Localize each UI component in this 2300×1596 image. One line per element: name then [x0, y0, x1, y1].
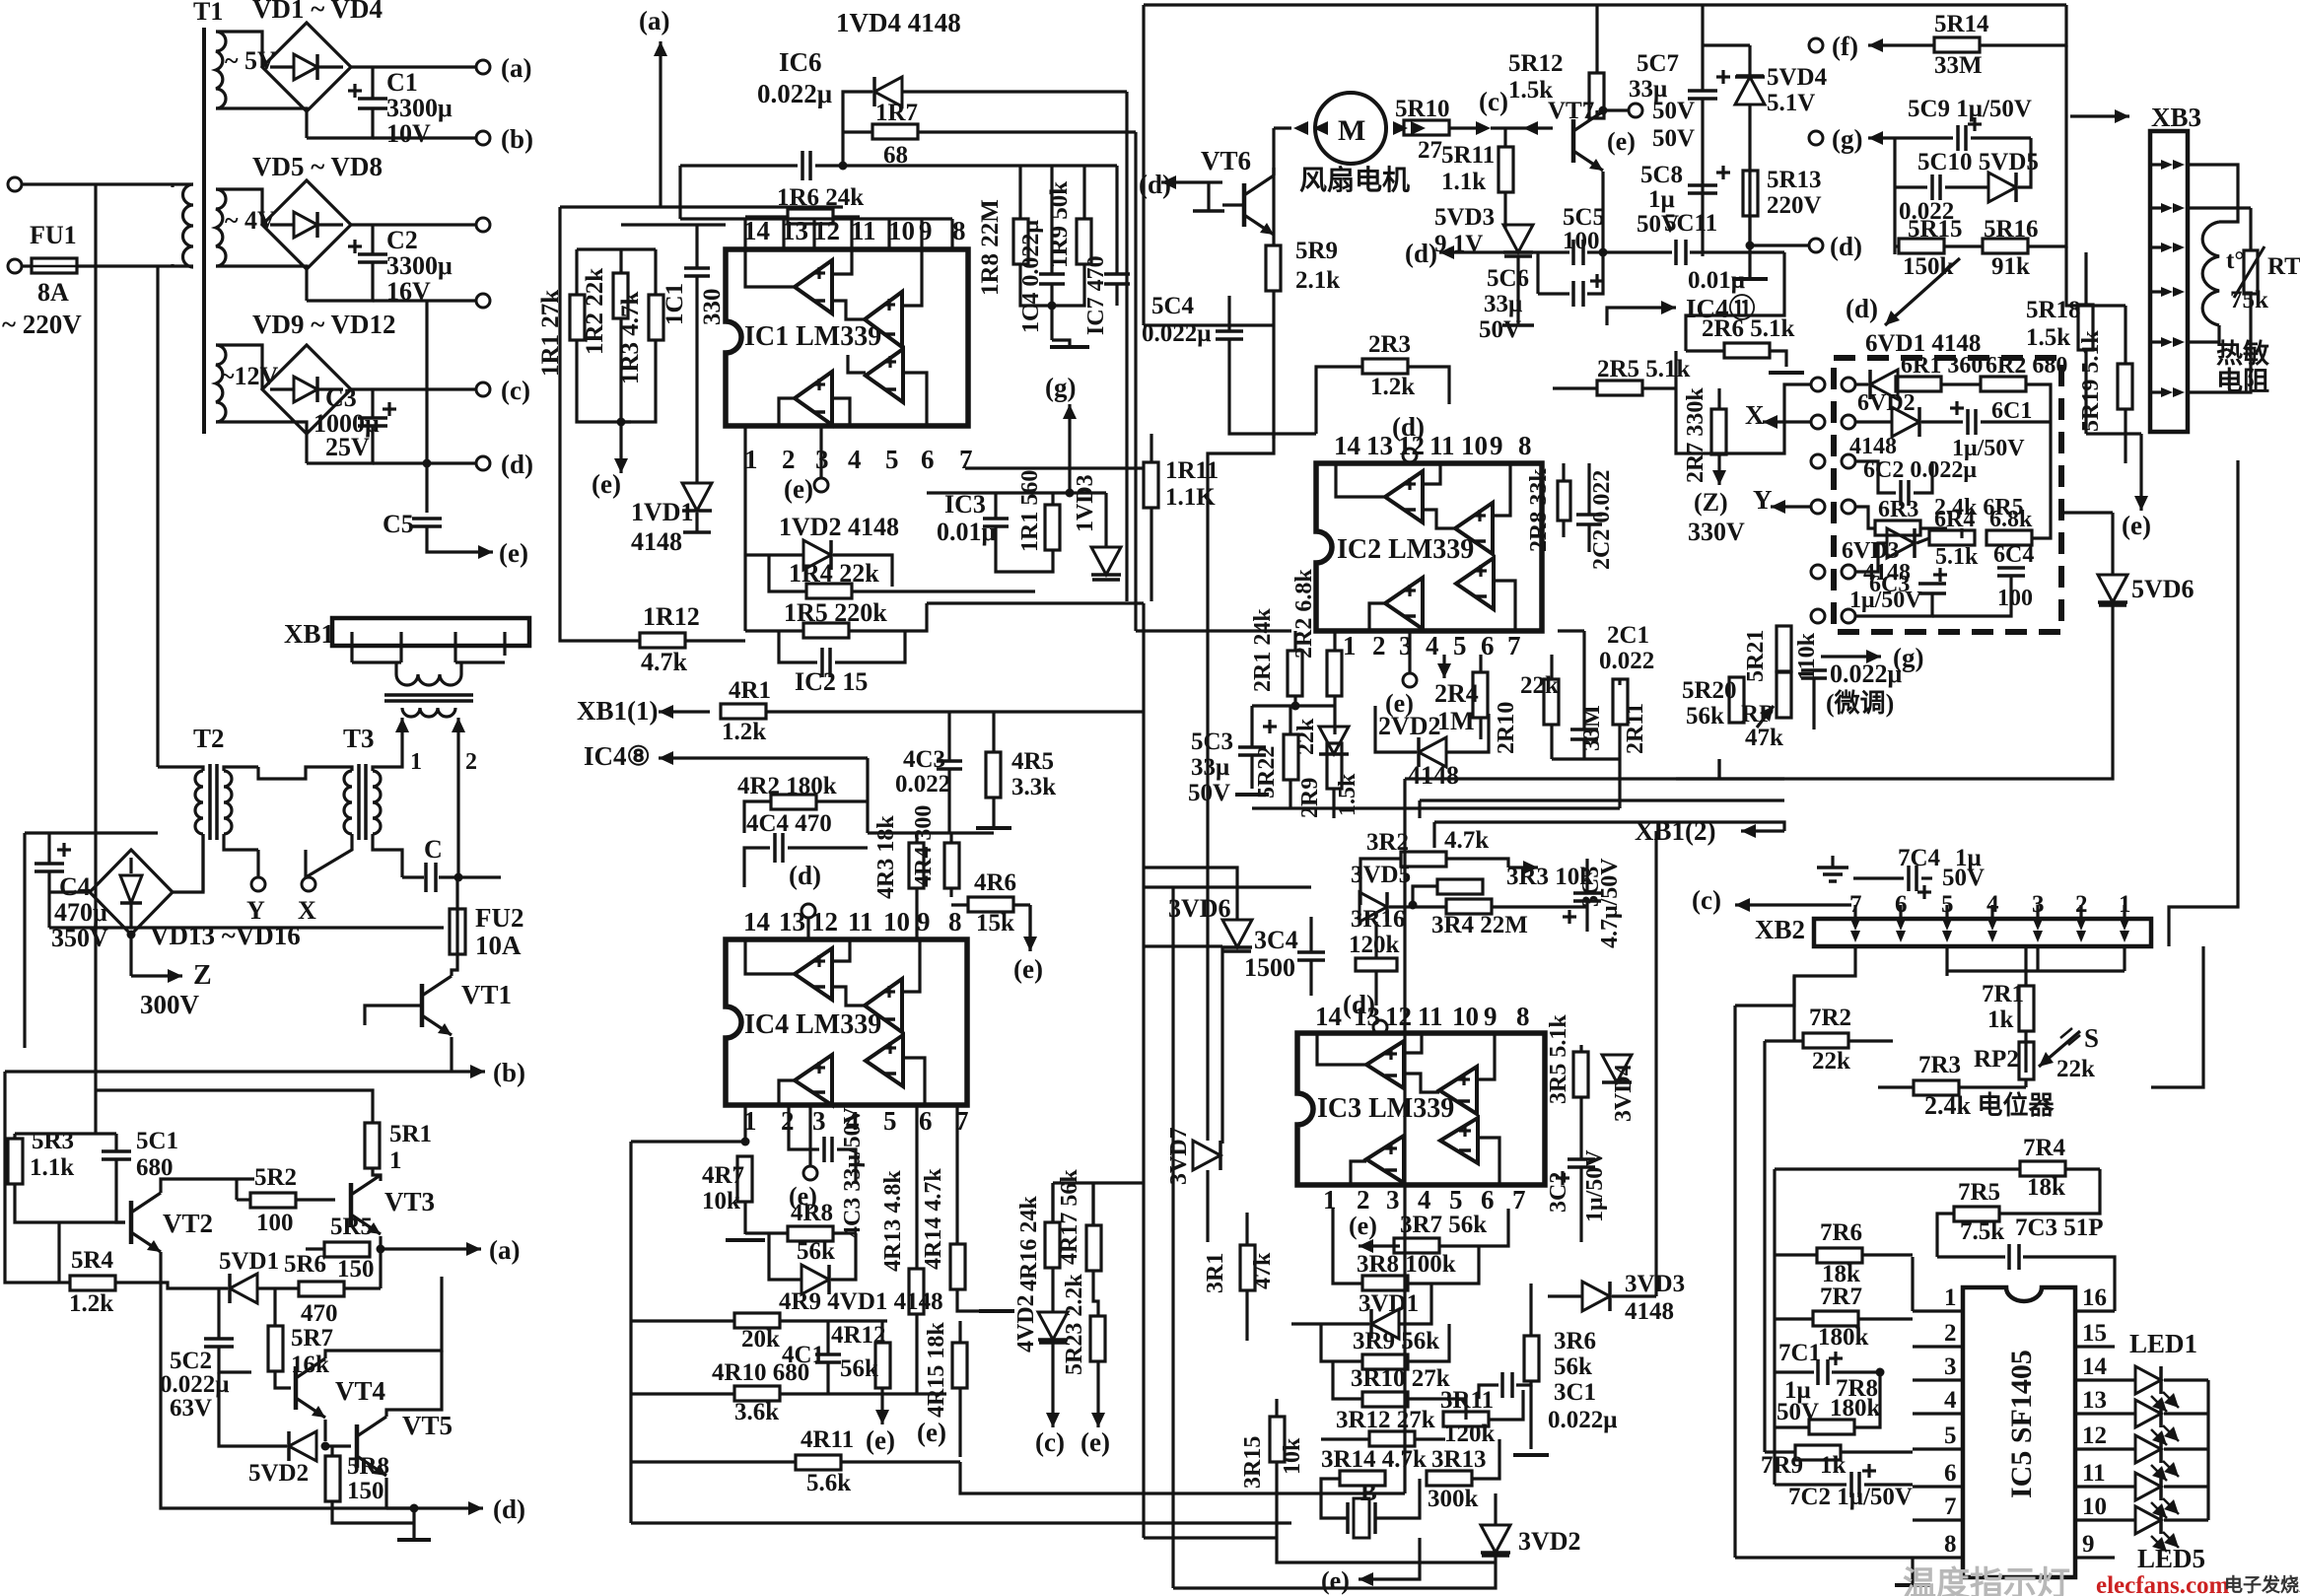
wire 3C3 top [1585, 859, 1588, 893]
transformer T3 primary [344, 771, 352, 834]
svg-text:3R7 56k: 3R7 56k [1400, 1212, 1487, 1238]
svg-text:7: 7 [1512, 1185, 1526, 1214]
svg-text:18k: 18k [2027, 1174, 2065, 1201]
wire LED3 out [2164, 1447, 2208, 1450]
wire 2VD2 left [1375, 706, 1417, 752]
capacitor 1C3 [983, 519, 1009, 526]
svg-text:3R14 4.7k: 3R14 4.7k [1321, 1446, 1427, 1473]
svg-text:11: 11 [848, 907, 873, 937]
wire bridge1 ac top [216, 32, 262, 67]
wire 5c6 drop [1536, 252, 1539, 294]
label 2R7 330k [1683, 387, 1708, 483]
label 6VD2 [1857, 390, 1916, 416]
svg-text:3: 3 [1944, 1353, 1957, 1380]
label 1C7 470 [1083, 255, 1109, 335]
wire 5R11 bot [1503, 192, 1506, 229]
wire to C5 [425, 463, 428, 513]
wire LED4 out [2164, 1485, 2208, 1488]
diode 3VD4 [1602, 1055, 1632, 1082]
wire 4C4 left [744, 848, 770, 887]
svg-text:1R8 22M: 1R8 22M [977, 199, 1004, 296]
label 7C4 [1898, 845, 1941, 871]
svg-text:100: 100 [1997, 586, 2033, 611]
wire IC5 pin 1 stub [1913, 1309, 1963, 1312]
label 3C2 [1546, 1172, 1571, 1213]
label IC1 pin 8 [952, 216, 966, 245]
wire IC4a in [832, 939, 850, 961]
wire 3VD1 left [1291, 1322, 1369, 1325]
label C [424, 835, 443, 864]
label 3R15 val [1280, 1437, 1305, 1475]
connector XB3 pin 2 [2150, 203, 2185, 213]
wire 3C4 bot [1309, 961, 1312, 996]
wire left border bl [3, 1072, 6, 1213]
wire 4C1 top [826, 1321, 829, 1354]
label ~4V [225, 206, 276, 235]
label 5R15 val [1903, 253, 1954, 280]
wire 1c3 bot [996, 527, 1053, 572]
svg-text:T2: T2 [193, 724, 225, 753]
wire a-line vertical [659, 104, 662, 207]
svg-text:4148: 4148 [1849, 434, 1897, 459]
svg-text:6: 6 [1481, 631, 1495, 660]
svg-text:C4: C4 [59, 872, 91, 901]
wire bridge3 ac bot [216, 422, 307, 434]
wire IC5 pin 4 stub [1913, 1412, 1963, 1415]
LED LED1 [2135, 1366, 2179, 1412]
resistor 5R19 [2118, 364, 2132, 409]
wire IC5 pin 5 stub [1913, 1447, 1963, 1450]
transformer T1 primary winding [173, 184, 193, 267]
label 5R13 [1767, 167, 1822, 193]
wire sect7 left v [1733, 1006, 1736, 1558]
label 7R9 [1761, 1452, 1803, 1479]
wire 4R4 top [949, 833, 952, 843]
junction 7r8 [1876, 1368, 1885, 1377]
wire net vt6 to ic2 [1272, 434, 1275, 439]
svg-text:1VD1: 1VD1 [631, 498, 694, 526]
wire rt top [2249, 208, 2252, 250]
label IC4 pin 14 [743, 907, 770, 937]
capacitor 7C1 [1818, 1352, 1843, 1385]
label 6VD3 4148 [1863, 560, 1911, 586]
svg-text:1R11: 1R11 [1165, 457, 1219, 484]
label 5C5 val [1563, 228, 1600, 254]
connector XB3 pin 4 [2150, 287, 2185, 297]
label 3R8 100k [1357, 1251, 1456, 1278]
label 2R4 [1434, 679, 1479, 708]
svg-text:8: 8 [1518, 431, 1532, 460]
terminal b2 [476, 218, 490, 232]
label XB1(2) [1635, 816, 1716, 846]
wire h 985 [1947, 969, 2125, 972]
svg-text:5R4: 5R4 [71, 1247, 114, 1274]
wire AC top to T1 primary [22, 182, 173, 185]
label 3VD2 [1518, 1527, 1581, 1556]
diode 1VD3 [1091, 547, 1121, 580]
resistor 2R2 [1327, 651, 1342, 696]
resistor 4R10 [734, 1386, 780, 1401]
svg-text:7R6: 7R6 [1820, 1219, 1862, 1246]
wire IC2b in [1493, 463, 1510, 516]
svg-text:330: 330 [699, 289, 726, 326]
svg-text:IC2 LM339: IC2 LM339 [1337, 534, 1474, 565]
transformer T1 secondary 5V [216, 32, 226, 108]
wire vt7 base wire [1523, 126, 1553, 129]
label 3R4 22M [1431, 912, 1528, 938]
label 5R9 [1295, 238, 1338, 264]
wire LED3 in [2115, 1447, 2135, 1450]
label 330 [699, 289, 726, 326]
label 3R3 10k [1506, 864, 1593, 890]
wire 3R11 right [1489, 1390, 1523, 1420]
label IC1 pin 7 [959, 445, 973, 474]
svg-text:VT7: VT7 [1548, 98, 1594, 124]
capacitor 1C6 [802, 151, 810, 180]
svg-text:(e): (e) [1607, 127, 1636, 156]
svg-text:22k: 22k [2056, 1056, 2095, 1082]
resistor 5R6 [257, 1282, 381, 1296]
resistor 2R6 [1724, 343, 1770, 358]
resistor 7R7 [1813, 1311, 1858, 1326]
svg-text:33μ: 33μ [1484, 291, 1522, 317]
arrow (e) ic3 [1359, 1572, 1388, 1586]
wire IC5 pin 2 stub [1913, 1345, 1963, 1348]
wire 4C4 right [788, 846, 868, 849]
wire 1C6 left [680, 164, 798, 167]
wire bus h 640 [1136, 629, 1291, 632]
terminal b3 [476, 294, 490, 308]
wire 4R16 top [1051, 1183, 1054, 1222]
terminal (d) ic3 [1373, 1020, 1387, 1034]
wire 4c3b right [837, 1149, 856, 1183]
wire IC1b in [902, 249, 922, 306]
label 0.022 f [1899, 198, 1954, 225]
op-amp IC1c [866, 349, 903, 402]
label 5VD4 [1767, 64, 1828, 91]
wire 4R9 right [780, 1319, 887, 1322]
wire sect5 left [1142, 5, 1145, 325]
label XB2 pin 7 [1849, 891, 1862, 918]
wire 1C2 left [779, 631, 817, 662]
label IC3 pin 14 [1315, 1002, 1342, 1031]
label 50V fan [1652, 98, 1695, 124]
svg-text:50V: 50V [1479, 316, 1521, 343]
wire coil top [2188, 165, 2238, 222]
svg-text:4R5: 4R5 [1011, 748, 1054, 775]
svg-text:7C1: 7C1 [1778, 1340, 1821, 1366]
label 1R11 value [1165, 484, 1216, 511]
svg-text:14: 14 [1315, 1002, 1342, 1031]
resistor 5R14 [1934, 37, 1980, 52]
wire 3c2 bot [1579, 1168, 1582, 1242]
label 330V ic2 [1688, 518, 1745, 546]
svg-text:56k: 56k [1554, 1353, 1592, 1380]
label 3R13 val [1428, 1486, 1479, 1512]
svg-text:5C4: 5C4 [1151, 293, 1195, 319]
svg-text:4.7k: 4.7k [641, 648, 688, 676]
svg-text:5VD4: 5VD4 [1767, 64, 1828, 91]
arrow IC4-11 [1637, 301, 1676, 314]
wire rp net right [2151, 946, 2203, 1087]
label (e) xb3 [2122, 511, 2151, 540]
label IC5 pin 13 [2082, 1387, 2107, 1414]
label 5R1 [389, 1121, 432, 1147]
resistor 5R11 [1498, 147, 1513, 192]
wire 3R3 left [1413, 886, 1437, 905]
wire xb2 pin1 down [2123, 946, 2126, 971]
resistor 4R17 [1086, 1225, 1101, 1271]
wire left rail 1 [558, 207, 561, 631]
label 7R1 val [1987, 1006, 2014, 1033]
diode 3VD5 [1359, 892, 1387, 922]
label IC4 pin 6 [919, 1106, 933, 1136]
capacitor 5C1 [102, 1151, 131, 1159]
svg-text:3R1: 3R1 [1203, 1253, 1228, 1293]
label 5R19 5.1k [2078, 330, 2104, 432]
svg-text:(d): (d) [1830, 232, 1862, 261]
svg-text:6R2 680: 6R2 680 [1986, 353, 2067, 379]
arrow (d) bl [463, 1501, 483, 1515]
wire 5vd4 bot [1748, 104, 1751, 245]
wire 7r6 r [1862, 1253, 1913, 1256]
svg-text:5.1V: 5.1V [1767, 90, 1815, 116]
wire top of C4 net [25, 831, 158, 834]
wire e ic3 [1388, 1538, 1420, 1579]
wire C3 top [371, 389, 374, 417]
transformer T2 secondary [224, 771, 232, 834]
wire 4vd1 right [831, 1233, 856, 1280]
label (d) ic2 [1392, 412, 1425, 442]
svg-text:RT: RT [2267, 253, 2300, 280]
svg-text:(e): (e) [1321, 1566, 1350, 1595]
label IC4 pin 2 [781, 1106, 795, 1136]
resistor 4R3 [909, 843, 924, 888]
wire VT1 emitter down [450, 1037, 453, 1072]
wire 5R11 top [1503, 128, 1506, 147]
label IC3 pin 10 [1452, 1002, 1479, 1031]
resistor 2R11 [1613, 679, 1628, 725]
label 7R8 val [1830, 1395, 1881, 1422]
wire IC4b link [832, 987, 865, 1006]
wire block2 bot bus [1252, 806, 1620, 809]
wire 1C1 bottom [695, 277, 698, 483]
wire IC1d in [832, 398, 850, 426]
label t [2226, 247, 2244, 274]
svg-text:9: 9 [2082, 1531, 2095, 1558]
label 2R6 5.1k [1702, 315, 1795, 342]
label (g) r [1045, 373, 1076, 402]
label XB2 [1755, 915, 1805, 944]
bridge rectifier VD1-VD4 [262, 23, 351, 111]
wire 5R2 left drop [235, 1179, 238, 1200]
wire C1 top [371, 67, 374, 99]
arrow (f) [1868, 38, 1934, 52]
svg-text:14: 14 [1334, 431, 1360, 460]
wire 1R4 wires [769, 555, 806, 591]
resistor 3R15 [1270, 1417, 1285, 1462]
wire IC1 top pin stub x966 [950, 219, 953, 249]
label (g) ic2 [1893, 643, 1923, 672]
wire d ic2 stub [1408, 462, 1411, 463]
wire bridge4 left [49, 890, 90, 893]
wire 5R3/5C1 top bus [15, 1132, 116, 1135]
diode 1VD1 [682, 483, 712, 532]
wire gnd drop [1052, 340, 1070, 347]
svg-text:150: 150 [337, 1256, 375, 1283]
wire row1c [1941, 382, 1981, 385]
wire xb12 bus 3 [1434, 822, 1784, 831]
svg-text:(c): (c) [1692, 885, 1721, 915]
svg-text:XB2: XB2 [1755, 915, 1805, 944]
svg-text:1500: 1500 [1244, 953, 1295, 982]
transformer XB1 core [384, 695, 473, 701]
label 5R14 [1934, 11, 1989, 37]
label 2R10 [1494, 702, 1519, 754]
wire bottom bus2 [960, 1462, 1405, 1493]
wire IC5 pin 13 stub [2075, 1412, 2115, 1415]
resistor 2R8 [1558, 463, 1570, 537]
wire 2R6 right [1770, 351, 1786, 367]
junction 5c5 [1599, 248, 1608, 257]
label RP2 type [1924, 1090, 2055, 1120]
label IC4 pin 8 [948, 907, 962, 937]
svg-text:2: 2 [1372, 631, 1386, 660]
resistor 4R13 [909, 1269, 924, 1314]
label 16V [386, 277, 431, 306]
svg-text:5R23 2.2k: 5R23 2.2k [1062, 1274, 1087, 1375]
svg-text:2C1: 2C1 [1607, 622, 1649, 649]
label 5R13 val [1767, 192, 1822, 219]
wire 3R9 right [1408, 1324, 1449, 1361]
label 2R3 [1368, 331, 1411, 358]
wire 2R1 bot [1293, 696, 1296, 706]
wire pin1 loop [1911, 1257, 1914, 1311]
wire 3R14 right [1425, 1477, 1428, 1480]
resistor 2R3 [1362, 359, 1408, 374]
svg-text:(e): (e) [1385, 689, 1414, 718]
label 7R7 [1820, 1284, 1862, 1310]
svg-text:IC1 LM339: IC1 LM339 [744, 321, 881, 352]
wire IC1a out [745, 249, 795, 287]
svg-text:1: 1 [410, 749, 422, 775]
svg-text:6R1 360: 6R1 360 [1901, 353, 1983, 379]
svg-text:IC3 LM339: IC3 LM339 [1317, 1093, 1454, 1124]
wire 5C1 top [114, 1134, 117, 1150]
label IC4 pin 13 [779, 907, 805, 937]
wire 5r19 bot [2124, 409, 2126, 463]
label C1 value [386, 68, 418, 97]
svg-text:5VD6: 5VD6 [2131, 575, 2195, 603]
label 3300u 2 [386, 251, 453, 280]
wire 6c34 [1855, 592, 1932, 616]
label IC2 pin 10 [1461, 431, 1488, 460]
label 7R1 [1982, 981, 2024, 1007]
wire IC3a in [1404, 1033, 1422, 1053]
op-amp IC3d [1366, 1136, 1404, 1183]
resistor 3R8 [1362, 1276, 1408, 1290]
diode 2R9 top [1319, 727, 1349, 754]
svg-text:4C3 33μ/50V: 4C3 33μ/50V [840, 1106, 866, 1238]
wire 4R10 right [780, 1392, 946, 1395]
svg-text:X: X [298, 896, 316, 925]
label weitiao [1826, 688, 1894, 718]
svg-text:VT3: VT3 [384, 1187, 435, 1216]
svg-text:VD9 ~ VD12: VD9 ~ VD12 [252, 310, 396, 339]
resistor 5R21 [1777, 626, 1791, 671]
svg-text:4R14 4.7k: 4R14 4.7k [921, 1168, 946, 1270]
arrow 2R7 down [1712, 454, 1726, 485]
wire T3 sec top to 1 [373, 751, 402, 771]
wire 4R2 wires [744, 801, 771, 833]
svg-text:5C9 1μ/50V: 5C9 1μ/50V [1908, 96, 2032, 122]
label 6R3 [1878, 497, 1918, 522]
op-amp IC3b [1439, 1067, 1477, 1114]
svg-text:6C4: 6C4 [1993, 542, 2034, 568]
wire 5r18 bot [2084, 350, 2087, 434]
label 5R3 value [30, 1154, 74, 1181]
capacitor 1C7 [1104, 274, 1130, 284]
wire 4R15 bot [958, 1388, 961, 1457]
label X [1745, 400, 1765, 430]
wire 7r3 r [1959, 1085, 2026, 1088]
wire 5R7 top [273, 1288, 276, 1326]
resistor 4R11 [796, 1455, 841, 1470]
svg-text:5R13: 5R13 [1767, 167, 1822, 193]
label 5C6 v1 [1484, 291, 1522, 317]
wire 3R4 right [1492, 905, 1587, 908]
svg-text:11: 11 [1429, 431, 1455, 460]
label 5R14 val [1934, 52, 1983, 79]
wire xb12 bus v1 [1403, 779, 1406, 1493]
svg-text:16: 16 [2082, 1284, 2107, 1311]
wire 7r8 l [1775, 1425, 1809, 1428]
label 4R9 20k [741, 1326, 780, 1353]
svg-text:4.7k: 4.7k [1444, 827, 1489, 854]
terminal IC1 pin3 (e) [814, 478, 828, 492]
svg-text:LED5: LED5 [2137, 1544, 2205, 1573]
wire row1d [2026, 384, 2051, 422]
svg-text:3300μ: 3300μ [386, 251, 453, 280]
label 2R8 33k [1526, 468, 1552, 552]
resistor 3R1 [1240, 1245, 1255, 1290]
connector XB3 pin 6 [2150, 387, 2185, 397]
wire bus ic3 top2 [1144, 867, 1237, 887]
wire 4r34 bus [868, 831, 994, 834]
wire VT2 e down [161, 1266, 414, 1508]
wire 4R12 bot [880, 1388, 883, 1394]
arrow (e) 4R12 [875, 1394, 889, 1424]
arrowhead left vt7 [1523, 121, 1538, 135]
wire 1C6 to grp [843, 164, 1020, 167]
wire 4C1 bot [826, 1363, 829, 1394]
wire 3vd3 l [1548, 1294, 1582, 1297]
resistor 4R12 [875, 1343, 890, 1388]
svg-text:1.2k: 1.2k [1370, 374, 1415, 400]
wire 3R1 top [1245, 1213, 1248, 1245]
wire (a) out [381, 1247, 463, 1250]
capacitor 4C1 [815, 1354, 841, 1362]
label (e) fan [1607, 127, 1636, 156]
svg-text:5C2: 5C2 [170, 1348, 212, 1374]
capacitor 5C10 [1932, 174, 1940, 200]
wire 5c9 r [1971, 136, 2031, 139]
inductor heater coil [2202, 222, 2219, 325]
capacitor 5C4 [1216, 331, 1243, 339]
label 5C2 [170, 1348, 212, 1374]
wire 3R12 right [1415, 1437, 1445, 1440]
wire row1b [1896, 382, 1898, 385]
